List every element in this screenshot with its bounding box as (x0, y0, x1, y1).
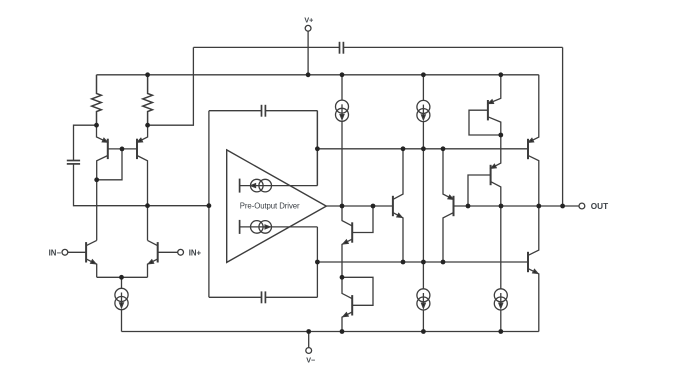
current source I6 (x=500) (494, 289, 507, 332)
transistor Q13 (NPN output) (528, 206, 539, 332)
node V+ terminal (305, 25, 311, 74)
current source I2 (triangle top) (240, 179, 318, 193)
transistor Q11 (diode NPN) (342, 206, 373, 277)
svg-text:Pre-Output Driver: Pre-Output Driver (240, 201, 300, 210)
wire Q7 node down to I6 (500, 206, 502, 289)
transistor Q3 (NPN, IN-) (86, 240, 97, 277)
wire driver output (326, 205, 393, 207)
wire mid rail (upper) (317, 148, 528, 150)
resistor R1 (92, 75, 102, 125)
junctions on driver output / OUT node wire (340, 204, 565, 209)
wire V+ rail (97, 74, 539, 76)
capacitor C1 (67, 161, 80, 164)
svg-text:IN−: IN− (49, 248, 62, 257)
transistor Q8 (PNP) (443, 149, 501, 262)
current source I4 (from V+ rail, x=342) (336, 75, 349, 206)
wire right comp drop to OUT node (562, 47, 564, 206)
node IN+ terminal (158, 249, 184, 255)
svg-text:V−: V− (306, 355, 315, 364)
wire Q1 collector down to Q3 (96, 180, 98, 241)
junctions on upper mid rail (315, 146, 445, 151)
wire Q1/Q2 common base (97, 149, 137, 180)
svg-text:IN+: IN+ (189, 248, 202, 257)
current source I5 (from V+ rail, x=423) (417, 75, 430, 262)
junction Q5 collector/base node (498, 133, 503, 138)
wire diff pair emitters (97, 276, 148, 278)
svg-text:OUT: OUT (591, 202, 608, 211)
junctions on V+ rail (145, 72, 503, 77)
transistor Q1 (PNP) (97, 125, 109, 180)
transistor Q10 (NPN driver) (393, 149, 403, 262)
junction Q1/Q2 common base node (94, 147, 124, 183)
wire V- rail (122, 331, 539, 333)
op-amp triangle (pre-output driver) (227, 150, 327, 263)
wire node A to capacitor C1 (74, 125, 97, 160)
junction Q11 emitter / Q12 node and diff-pair tail node (119, 275, 344, 280)
wire top compensation line left segment (193, 46, 339, 48)
wire CS top to box corner (316, 111, 318, 186)
node OUT terminal (579, 203, 585, 209)
current source I1 (tail) (115, 277, 128, 331)
junctions on V- rail (306, 329, 503, 334)
transistor Q12 (diode NPN) (342, 277, 373, 331)
transistor Q2 (PNP) (137, 125, 148, 240)
current source I3 (triangle bottom) (240, 220, 318, 234)
junctions at resistor bottoms (94, 123, 150, 128)
wire comp left drop (148, 47, 194, 125)
wire top compensation line right segment (343, 46, 562, 48)
junctions on lower mid rail (315, 260, 445, 265)
node V- terminal (306, 332, 312, 354)
transistor Q5 (diode PNP) (469, 75, 501, 135)
pre-output driver box (209, 111, 318, 298)
resistor R2 (143, 75, 153, 125)
node IN- terminal (62, 249, 86, 255)
junctions on pre-driver input wire (145, 203, 211, 208)
transistor Q7 (diode PNP) (468, 135, 501, 206)
capacitor C3 (box top edge) (262, 105, 266, 117)
current source I7 (x=423 lower) (417, 262, 430, 332)
svg-text:V+: V+ (304, 15, 313, 24)
wire C1 bottom to pre-driver input (74, 164, 209, 206)
wire OUT node (501, 205, 579, 207)
capacitor C4 (box bottom edge) (262, 291, 266, 303)
transistor Q4 (NPN, IN+) (148, 240, 158, 277)
transistor Q6 (PNP output) (528, 75, 539, 206)
capacitor C2 (top line) (340, 42, 344, 54)
wire mid rail (lower) (317, 261, 528, 263)
